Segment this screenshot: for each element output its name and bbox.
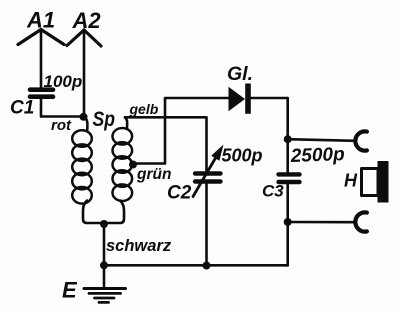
svg-text:gelb: gelb xyxy=(129,101,159,117)
svg-text:500p: 500p xyxy=(222,146,263,166)
svg-text:A2: A2 xyxy=(72,8,102,33)
svg-text:A1: A1 xyxy=(26,8,55,33)
svg-text:grün: grün xyxy=(136,166,171,183)
svg-text:100p: 100p xyxy=(44,72,83,91)
svg-text:H: H xyxy=(344,171,358,191)
svg-text:Sp: Sp xyxy=(93,108,116,131)
svg-text:2500p: 2500p xyxy=(289,144,345,167)
svg-text:E: E xyxy=(62,278,78,303)
svg-text:C3: C3 xyxy=(262,182,284,201)
svg-text:C2: C2 xyxy=(167,183,192,204)
svg-text:schwarz: schwarz xyxy=(106,237,172,255)
svg-text:Gl.: Gl. xyxy=(227,63,253,85)
svg-text:rot: rot xyxy=(51,117,72,134)
svg-text:C1: C1 xyxy=(10,98,34,119)
